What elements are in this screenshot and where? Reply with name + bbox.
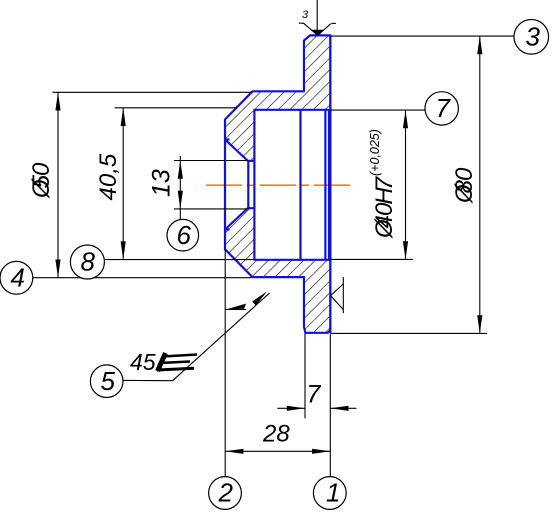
- bore chamfer line right: [324, 110, 326, 260]
- dim 40,5: dimension line: [122, 108, 124, 260]
- right face inner line: [328, 110, 330, 260]
- dim Ø50: top extension line: [52, 91, 252, 93]
- balloon 4: [0, 261, 33, 294]
- hub face line through bore (blue): [224, 140, 226, 230]
- chamfer 3 callout: bar: [311, 29, 323, 31]
- balloon 4 leader: [33, 277, 252, 279]
- svg-text:6: 6: [177, 220, 192, 250]
- svg-text:40,5: 40,5: [95, 153, 122, 200]
- part outline upper (blue): [225, 35, 330, 160]
- dim Ø80: arrows: [477, 36, 482, 54]
- chamfer 3 callout: leader vertical: [316, 0, 318, 30]
- right face full line: [329, 35, 331, 333]
- svg-text:5: 5: [101, 366, 116, 396]
- svg-text:45: 45: [130, 349, 156, 375]
- svg-text:13: 13: [148, 169, 176, 197]
- cone edge tick upper: [225, 138, 230, 140]
- svg-text:28: 28: [262, 421, 290, 448]
- chamfer 3 callout: filled tip: [311, 30, 323, 35]
- svg-text:1: 1: [326, 478, 340, 508]
- balloon 5: [90, 365, 123, 398]
- centerline: [206, 184, 351, 186]
- dim Ø40H7: top extension / balloon 7 leader: [330, 109, 425, 111]
- degree symbol glyph (garbled E): [157, 353, 197, 371]
- dim 13: dimension line: [179, 156, 181, 219]
- svg-text:3: 3: [526, 22, 541, 52]
- dim Ø50: dimension line: [57, 92, 59, 277]
- balloon 5 leader horizontal: [119, 379, 173, 381]
- dim Ø80: top extension / balloon 3 leader: [330, 35, 514, 37]
- svg-text:2: 2: [218, 478, 234, 508]
- svg-text:Ø80: Ø80: [451, 167, 478, 204]
- svg-text:3: 3: [302, 9, 309, 21]
- dim 28: dimension line: [225, 450, 330, 452]
- balloon 2 leader: [224, 249, 226, 476]
- balloon 7: [425, 92, 458, 125]
- dim 7: dimension line segments: [278, 407, 306, 409]
- small bore entry edge vertical: [247, 161, 249, 208]
- svg-text:4: 4: [11, 263, 25, 293]
- dim 7: arrows (outside): [287, 406, 305, 411]
- hatch fill lower section: [225, 208, 330, 333]
- balloon 2: [209, 477, 242, 510]
- chamfer 3 callout: side ticks: [299, 22, 304, 24]
- balloon 1 leader: [329, 333, 331, 476]
- chamfer 3 callout: V arrow: [304, 23, 318, 35]
- balloon 5 leader diagonal: [173, 293, 270, 381]
- svg-text:7: 7: [436, 93, 452, 123]
- svg-text:(+0,025): (+0,025): [368, 129, 382, 176]
- dim 40,5: arrows: [121, 108, 126, 126]
- dim 40,5: top extension line: [115, 107, 237, 109]
- svg-text:7: 7: [307, 381, 322, 409]
- bore end face mid segment: [253, 161, 255, 208]
- dim Ø40H7: dimension line: [405, 110, 407, 259]
- bore step line: [299, 110, 301, 260]
- hatch fill upper section: [225, 35, 330, 160]
- svg-text:Ø50: Ø50: [28, 162, 55, 199]
- 45 deg horizontal chord: [225, 309, 246, 311]
- cone edge tick lower: [225, 228, 230, 230]
- balloon 6 (on dim 13 line): [167, 219, 199, 251]
- 45 deg arrow on chord: [227, 304, 247, 310]
- balloon 1: [313, 477, 346, 510]
- dim 7: left extension line: [304, 333, 306, 418]
- dim Ø40H7: bottom extension: [330, 258, 413, 260]
- balloon 3: [514, 20, 549, 55]
- 45 deg arrow on diagonal: [252, 292, 267, 306]
- dim Ø80: dimension line: [479, 36, 481, 333]
- balloon 8: [104, 259, 254, 261]
- dim Ø50: arrows: [55, 92, 60, 110]
- svg-text:Ø40H7: Ø40H7: [371, 175, 398, 239]
- surface finish symbol: [331, 284, 344, 296]
- dim 13: extension lines: [174, 160, 248, 162]
- dim Ø80: bottom extension: [331, 332, 487, 334]
- svg-text:8: 8: [81, 247, 96, 277]
- dim Ø40H7: arrows: [403, 110, 408, 128]
- dim 13: arrows: [178, 161, 183, 179]
- part outline lower (blue): [225, 208, 330, 333]
- dim 28: arrows: [225, 449, 243, 454]
